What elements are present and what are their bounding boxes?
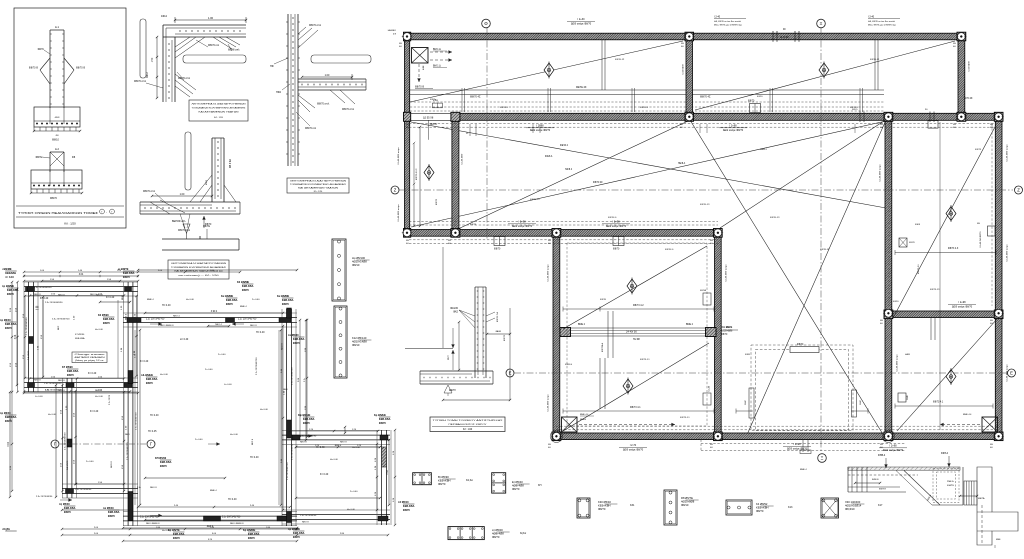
- svg-text:ΜΕΕ: ΜΕΕ: [996, 539, 1001, 541]
- svg-text:4Θ: 4Θ: [953, 127, 956, 129]
- svg-text:4Φ: 4Φ: [393, 33, 396, 36]
- svg-text:ΚΕΒ-ΚΒΑ: ΚΕΒ-ΚΒΑ: [123, 272, 135, 275]
- svg-text:4Φ/8 Β: 4Φ/8 Β: [430, 123, 438, 126]
- middle room dashed stage rectangles: [751, 345, 853, 431]
- svg-text:Κ2,Κα: Κ2,Κα: [466, 479, 473, 482]
- wall section detail: text box: [287, 178, 349, 193]
- svg-text:ΔΙΑΣΤΑΣΕΙΣ ΚΑΤΑ ΒΑΡΗ: ΔΙΑΣΤΑΣΕΙΣ ΚΑΤΑ ΒΑΡΗ: [75, 356, 106, 359]
- svg-text:ΤΟΙΧΩΜΑΤΩΝ ΚΟΛΥΜΒΗΤΙΚΗΣ ΔΕΞΑΜΕ: ΤΟΙΧΩΜΑΤΩΝ ΚΟΛΥΜΒΗΤΙΚΗΣ ΔΕΞΑΜΕΝΗΣ: [192, 107, 247, 110]
- svg-text:Ξ: Ξ: [820, 21, 823, 26]
- corner detail L2: dimension: [152, 195, 212, 197]
- svg-text:Φ8/73: Φ8/73: [435, 198, 438, 205]
- stub below H5 at x805: [802, 440, 804, 452]
- beam V7 top right: [958, 40, 965, 114]
- svg-text:Φ8/70: Φ8/70: [226, 303, 234, 306]
- svg-text:ΒΜΕ 4: ΒΜΕ 4: [726, 327, 733, 329]
- svg-text:4Θ: 4Θ: [548, 447, 551, 449]
- svg-text:Φ8/ΤΑ: Φ8/ΤΑ: [700, 289, 707, 292]
- stair detail: inner lines: [848, 474, 918, 476]
- svg-text:Σ= 0.40: Σ= 0.40: [218, 354, 226, 356]
- svg-text:ΛΕΠΤΟΜΕΡΕΙΑ Λ2 ΔΙΑΣΤΑΥΡΟΥΜΕΝΩΝ: ΛΕΠΤΟΜΕΡΕΙΑ Λ2 ΔΙΑΣΤΑΥΡΟΥΜΕΝΩΝ: [171, 262, 227, 265]
- wall section detail: dimension: [302, 76, 352, 78]
- svg-text:Σ.Δ. 25/75/45/90: Σ.Δ. 25/75/45/90: [290, 443, 293, 460]
- svg-text:Ξ: Ξ: [821, 456, 824, 461]
- svg-text:Ξ= 0.40: Ξ= 0.40: [224, 384, 232, 386]
- svg-text:40/20: 40/20: [757, 96, 763, 98]
- svg-text:Φ8/73: Φ8/73: [470, 223, 477, 226]
- foundation note box: [72, 352, 107, 363]
- foundation wall rightroom top: [282, 430, 390, 432]
- svg-text:ΗΔ/8 4: ΗΔ/8 4: [565, 168, 573, 171]
- svg-text:Χ30 140/400: Χ30 140/400: [845, 500, 861, 504]
- svg-text:Ξα Ø5/40: Ξα Ø5/40: [103, 507, 114, 510]
- svg-text:Φ8/73 4.1: Φ8/73 4.1: [630, 406, 641, 409]
- svg-text:Ι 2+98: Ι 2+98: [536, 125, 544, 128]
- slab strip detail: [162, 238, 239, 240]
- foundation wall room2 left: [62, 378, 64, 498]
- svg-text:Φ8/70: Φ8/70: [7, 293, 15, 296]
- svg-text:Σ.Δ. 25/75/45/700: Σ.Δ. 25/75/45/700: [286, 462, 289, 480]
- svg-text:ΝΕΟ 8: ΝΕΟ 8: [302, 521, 309, 523]
- foundation wall bigroom bottom: [123, 511, 297, 513]
- svg-text:4Θ: 4Θ: [399, 46, 402, 48]
- corner detail L2: corner rebar diagonals: [200, 185, 212, 202]
- retaining wall detail: leader to plan above: [442, 247, 444, 348]
- svg-text:Φ8,Φ10: Φ8,Φ10: [845, 507, 855, 511]
- svg-text:ΒΜΕ 4: ΒΜΕ 4: [240, 306, 247, 308]
- svg-text:Κρ ΘΝ/ΜΕ: Κρ ΘΝ/ΜΕ: [243, 529, 256, 532]
- svg-text:Σ.Δ. 25/100/45/90: Σ.Δ. 25/100/45/90: [45, 389, 63, 392]
- svg-text:Φ8/70: Φ8/70: [108, 515, 116, 518]
- svg-text:Φ8/70: Φ8/70: [721, 333, 728, 336]
- svg-text:Φ8/70: Φ8/70: [494, 248, 501, 251]
- svg-text:Ι 2+40 ΔΕΘ ανάρε: Ι 2+40 ΔΕΘ ανάρε: [547, 264, 550, 282]
- right room thin vertical line: [939, 122, 941, 430]
- svg-text:Φ8/10: Φ8/10: [681, 503, 689, 507]
- svg-text:Φ8/Χ: Φ8/Χ: [205, 179, 208, 185]
- svg-text:Κ4 Ø8/92: Κ4 Ø8/92: [756, 502, 768, 506]
- svg-text:ΤΕ Φ8: ΤΕ Φ8: [633, 338, 640, 341]
- svg-text:Δ.1: Δ.1: [55, 25, 59, 29]
- corner detail L1: left dimension: [156, 37, 158, 98]
- retaining wall detail: vertical wall: [474, 287, 476, 378]
- beam V6: [715, 236, 722, 433]
- svg-text:4Θ: 4Θ: [406, 127, 409, 129]
- svg-text:1.00: 1.00: [325, 74, 330, 77]
- svg-text:Σ= 0.40: Σ= 0.40: [252, 299, 260, 301]
- svg-text:Φ8/70 4.Σ: Φ8/70 4.Σ: [700, 203, 710, 206]
- svg-text:ΒΕΖ 4: ΒΕΖ 4: [125, 313, 127, 320]
- diamond node lower-left room upper: [627, 279, 637, 293]
- grid axis vertical x=821: [820, 28, 822, 453]
- stub on V8 left y230: [988, 226, 996, 236]
- svg-text:ΚΕΒ-ΚΒΑ: ΚΕΒ-ΚΒΑ: [248, 533, 260, 536]
- svg-text:Φ8/70 Θ: Φ8/70 Θ: [608, 216, 617, 219]
- svg-text:Σ.Δ. 25/100/45/90: Σ.Δ. 25/100/45/90: [25, 317, 28, 335]
- svg-text:Β) Ø5/90: Β) Ø5/90: [438, 475, 449, 479]
- svg-text:ΒΜΕ 4: ΒΜΕ 4: [210, 490, 217, 492]
- svg-text:Σ.Δ. 25/75/45/90: Σ.Δ. 25/75/45/90: [300, 514, 317, 517]
- svg-text:Σ= 0.40: Σ= 0.40: [350, 491, 358, 493]
- dashed line below bottom beam right: [701, 443, 906, 445]
- double circle at H5 left end: [550, 430, 562, 442]
- svg-text:Σ.Δ. 25/75/45/700: Σ.Δ. 25/75/45/700: [140, 515, 159, 518]
- svg-text:ΦΘΒ Δ: ΦΘΒ Δ: [878, 454, 886, 457]
- stub on V4 right side upper: [899, 238, 907, 247]
- svg-text:Φ8/Ε: Φ8/Ε: [906, 395, 909, 400]
- svg-text:Ι 2-40 ΔΕΘ: Ι 2-40 ΔΕΘ: [968, 61, 971, 72]
- svg-text:ΦΜ/ΤΕ: ΦΜ/ΤΕ: [947, 484, 955, 487]
- svg-text:Σ.Δ. 25/100/45/90: Σ.Δ. 25/100/45/90: [44, 382, 62, 385]
- svg-text:Φ8/70: Φ8/70: [293, 536, 301, 539]
- svg-text:Η= 0.40: Η= 0.40: [316, 446, 325, 449]
- right upper room dashed inset: [991, 124, 993, 306]
- svg-text:ΝΕΟ ΦΕΩΕ 8: ΝΕΟ ΦΕΩΕ 8: [160, 324, 174, 327]
- grid axis vertical x=487: [486, 28, 488, 240]
- right lower room rib: [895, 405, 993, 407]
- svg-text:ΝΕΟ 4: ΝΕΟ 4: [215, 324, 222, 326]
- svg-text:ΒΜΕ 4: ΒΜΕ 4: [147, 299, 154, 301]
- svg-text:Φ8/73 4.1: Φ8/73 4.1: [917, 264, 920, 274]
- svg-text:ΦΕ/Τθ: ΦΕ/Τθ: [449, 389, 456, 392]
- svg-text:Σ= 0.40: Σ= 0.40: [90, 410, 99, 413]
- svg-text:Η= 0.40: Η= 0.40: [186, 299, 195, 301]
- svg-text:ΗΦ2: ΗΦ2: [276, 91, 282, 94]
- svg-text:Φ8/70: Φ8/70: [909, 241, 916, 244]
- svg-text:Φ10/20: Φ10/20: [450, 307, 459, 310]
- stub between dashed rows left strip: [432, 103, 442, 108]
- svg-text:ΦΕΤΑ 4: ΦΕΤΑ 4: [560, 144, 569, 147]
- svg-text:ΚΕΒ-ΚΒΑ: ΚΕΒ-ΚΒΑ: [5, 323, 17, 326]
- svg-text:Φ8/70: Φ8/70: [403, 509, 411, 512]
- svg-text:3.04: 3.04: [15, 334, 17, 339]
- svg-text:Σ= 0.40: Σ= 0.40: [195, 439, 203, 441]
- beam V5: [553, 236, 560, 433]
- svg-text:Φ8/70: Φ8/70: [146, 382, 154, 385]
- beam H2 open segment: [410, 112, 452, 114]
- svg-text:Φ8/70: Φ8/70: [438, 482, 446, 486]
- column section X30 square: [821, 498, 839, 518]
- svg-text:ΚΕΒ-ΚΒΑ: ΚΕΒ-ΚΒΑ: [5, 416, 17, 419]
- dashed slab edge below H2: [409, 123, 1000, 125]
- svg-text:ΦΑΣ: ΦΑΣ: [453, 311, 458, 314]
- svg-text:Κ2 ΘΝ/ΜΕ: Κ2 ΘΝ/ΜΕ: [237, 281, 249, 284]
- svg-text:Η= 0.40: Η= 0.40: [330, 459, 339, 461]
- svg-text:Φ8/70 Θ: Φ8/70 Θ: [665, 248, 674, 251]
- stubs on V6 left side: [703, 293, 711, 305]
- svg-text:4Ø20+14Ø8: 4Ø20+14Ø8: [352, 340, 367, 344]
- svg-text:ΔΕΘ ανάρε Φ8/70: ΔΕΘ ανάρε Φ8/70: [571, 23, 592, 26]
- svg-text:1.00: 1.00: [208, 16, 214, 20]
- svg-text:4Θ: 4Θ: [548, 243, 551, 245]
- svg-text:ΒΜΕ 4.4: ΒΜΕ 4.4: [580, 414, 589, 416]
- foundation perimeter dimension chains: [24, 271, 240, 273]
- retaining wall detail: bottom arrow: [444, 385, 452, 393]
- svg-text:Ι 2-40: Ι 2-40: [714, 16, 721, 19]
- svg-text:ΚΕΒ+ΚΒΗ: ΚΕΒ+ΚΒΗ: [438, 479, 451, 483]
- svg-text:ΗΕ/8 Α: ΗΕ/8 Α: [678, 162, 686, 165]
- stub on V4 right side lower: [898, 393, 906, 402]
- svg-text:ΚΛ : 1/20: ΚΛ : 1/20: [314, 191, 323, 193]
- middle room side bars: [749, 388, 754, 418]
- wall section detail: upper slab bar: [311, 55, 371, 63]
- svg-text:Κ31: Κ31: [630, 504, 635, 507]
- svg-text:Φ8/70: Φ8/70: [64, 511, 72, 514]
- svg-text:Δ.2: Δ.2: [55, 147, 59, 151]
- svg-text:κι ΘΝ/ΤΕ: κι ΘΝ/ΤΕ: [118, 268, 129, 271]
- svg-text:Ι 2-40 ΔΕΘ: Ι 2-40 ΔΕΘ: [682, 64, 685, 75]
- diamond node left strip: [424, 166, 434, 180]
- svg-text:3.04: 3.04: [8, 442, 10, 447]
- svg-text:ΒΕΡΟΦ απλ: ΒΕΡΟΦ απλ: [172, 220, 186, 223]
- svg-text:Φ8/70: Φ8/70: [67, 374, 75, 377]
- svg-text:ΚΛ : 1/20: ΚΛ : 1/20: [214, 117, 224, 119]
- svg-text:Ι 2+98: Ι 2+98: [518, 221, 526, 224]
- lower-left room diagonals: [563, 246, 707, 329]
- svg-text:4Ø8+4Ø8: 4Ø8+4Ø8: [512, 484, 524, 488]
- svg-text:ΚΕΦΑΒΗ: ΚΕΦΑΒΗ: [5, 272, 16, 275]
- svg-text:ΞΔ ΘΝ/ΗΕ: ΞΔ ΘΝ/ΗΕ: [141, 374, 153, 377]
- svg-text:Σ= 0.40: Σ= 0.40: [86, 461, 94, 463]
- svg-text:Σ.Δ. 25/75/45/700: Σ.Δ. 25/75/45/700: [290, 367, 293, 385]
- svg-text:Ι 2+40 ΔΕΘ ανάρε: Ι 2+40 ΔΕΘ ανάρε: [547, 394, 550, 412]
- foundation spine wall: [123, 282, 125, 526]
- svg-text:Σ= 0.40: Σ= 0.40: [106, 296, 115, 299]
- svg-text:ΒΜΕ 4: ΒΜΕ 4: [578, 324, 586, 326]
- svg-text:Ι 2+40 ΔΕΘ ανάρε: Ι 2+40 ΔΕΘ ανάρε: [1006, 244, 1009, 262]
- svg-text:Η= 0.40: Η= 0.40: [95, 329, 104, 331]
- svg-text:Η= 0.40: Η= 0.40: [230, 434, 239, 436]
- corner detail L2: column bar: [185, 132, 191, 190]
- svg-text:ΚΕΒ-ΚΒΑ: ΚΕΒ-ΚΒΑ: [146, 378, 158, 381]
- svg-text:ΦΔ/8 Α: ΦΔ/8 Α: [545, 155, 553, 158]
- svg-text:Η= 0.45: Η= 0.45: [148, 430, 157, 433]
- svg-text:Ξ4 Ø5/10: Ξ4 Ø5/10: [398, 501, 409, 504]
- svg-text:ΔΕΘ ανάρε Φ8/70: ΔΕΘ ανάρε Φ8/70: [723, 129, 744, 132]
- svg-text:Φ8/70: Φ8/70: [293, 342, 301, 345]
- svg-text:ΝΕΟ 8: ΝΕΟ 8: [300, 441, 307, 443]
- svg-text:Ξρ ΘΝ/ΜΕ: Ξρ ΘΝ/ΜΕ: [2, 285, 14, 288]
- svg-text:3.90 4: 3.90 4: [211, 311, 218, 313]
- column section Xi three-cell wide: [448, 527, 484, 540]
- svg-text:Κ13: Κ13: [788, 506, 793, 509]
- tick pair on H2 near V4: [859, 112, 861, 123]
- foundation section axis: [60, 443, 146, 445]
- beam V1 left: [405, 33, 410, 236]
- svg-text:ΚΠ Ø5/90: ΚΠ Ø5/90: [155, 457, 167, 460]
- svg-text:Φ8/73 4.Σ: Φ8/73 4.Σ: [948, 247, 959, 250]
- svg-text:ΗΔ/ΔΕΟ: ΗΔ/ΔΕΟ: [388, 29, 397, 32]
- svg-text:Ι 2+98: Ι 2+98: [612, 221, 620, 224]
- svg-text:ΛΕΠΤΟΜΕΡΕΙΑ Λ3 ΔΙΑΣΤΑΥΡΟΥΜΕΝΩΝ: ΛΕΠΤΟΜΕΡΕΙΑ Λ3 ΔΙΑΣΤΑΥΡΟΥΜΕΝΩΝ: [290, 180, 347, 183]
- svg-text:Κ17: Κ17: [878, 504, 883, 507]
- foundation wall room1 top: [24, 281, 138, 283]
- grid axis horizontal y=190: [399, 189, 1013, 191]
- lap splice diamond D1: [40, 58, 50, 70]
- svg-text:Ι 2+40 ΔΕΘ ανάρε: Ι 2+40 ΔΕΘ ανάρε: [879, 164, 882, 182]
- svg-text:ΝΕΟ 8: ΝΕΟ 8: [34, 294, 41, 296]
- svg-text:Φ8/70 4: Φ8/70 4: [850, 106, 859, 109]
- svg-text:Ε: Ε: [1010, 371, 1013, 376]
- svg-text:ΚΑΙ ΔΕΞΑΜΕΝΩΝ ΥΔΑΤΩΝ: ΚΑΙ ΔΕΞΑΜΕΝΩΝ ΥΔΑΤΩΝ: [298, 186, 339, 189]
- svg-text:Φ8/70 4Σ: Φ8/70 4Σ: [470, 96, 481, 99]
- stub below H4 right: [613, 237, 624, 246]
- svg-text:Ξρ Ø3/40: Ξρ Ø3/40: [0, 412, 11, 415]
- svg-text:ΒΜΕ 4: ΒΜΕ 4: [686, 324, 694, 326]
- svg-text:ΚΕΒ-ΚΒΑ: ΚΕΒ-ΚΒΑ: [282, 299, 294, 302]
- stair detail: big right rect: [977, 467, 1018, 545]
- svg-text:4Θ: 4Θ: [880, 447, 883, 449]
- column section K4 wide: [726, 500, 752, 515]
- svg-text:Σ.Δ. 25/75/45/700: Σ.Δ. 25/75/45/700: [146, 318, 165, 321]
- svg-text:Φ8/70 Θ: Φ8/70 Θ: [76, 67, 85, 70]
- corner detail L1: vertical wall: [162, 25, 164, 102]
- right upper room diagonal: [893, 125, 996, 318]
- svg-text:Σ.Δ. 25/75/45/90: Σ.Δ. 25/75/45/90: [75, 488, 92, 491]
- rib tick pairs upper band: [461, 88, 463, 112]
- wall section detail: corner rebars: [298, 95, 315, 108]
- svg-text:Ξ= 0.40: Ξ= 0.40: [35, 396, 43, 398]
- detail box title strip: [16, 205, 124, 207]
- svg-text:Ι 2+98: Ι 2+98: [958, 301, 966, 304]
- svg-text:Φ8/10: Φ8/10: [352, 263, 360, 267]
- svg-text:Κ7 Ø5/90: Κ7 Ø5/90: [75, 334, 85, 336]
- beam H5 bottom: [553, 433, 1002, 440]
- svg-text:Φ8/70 4Σ: Φ8/70 4Σ: [615, 58, 625, 61]
- svg-text:ΚΕΒ-ΚΒΑ: ΚΕΒ-ΚΒΑ: [242, 285, 254, 288]
- foundation dimension ticks room1 inner: [23, 275, 25, 277]
- long diagonals middle hall: [411, 121, 886, 227]
- corner detail L1: corner rebar diagonals: [175, 37, 196, 52]
- svg-text:ΔΕΘ ανάρε Φ8/70: ΔΕΘ ανάρε Φ8/70: [883, 449, 904, 452]
- foundation arrow marks: [150, 323, 162, 325]
- left strip dimension arrow: [419, 127, 421, 226]
- svg-text:Ξ= 0.40: Ξ= 0.40: [180, 338, 189, 341]
- svg-text:Ξ= 3.10: Ξ= 3.10: [5, 276, 14, 279]
- svg-text:Σ.Δ. 25/75/45/700: Σ.Δ. 25/75/45/700: [52, 318, 70, 321]
- svg-text:Ι 2+40 ΔΕΘ ανάρε: Ι 2+40 ΔΕΘ ανάρε: [896, 354, 899, 372]
- svg-text:Φ8/70 Θ: Φ8/70 Θ: [29, 67, 38, 70]
- svg-text:Φ8/7α: Φ8/7α: [38, 48, 45, 51]
- diamond node upper band right: [819, 63, 829, 77]
- svg-text:Ξη Ø5/40: Ξη Ø5/40: [59, 503, 70, 506]
- svg-text:Η= 0.40: Η= 0.40: [150, 414, 159, 417]
- svg-text:Φ8/73 4.1.Σ: Φ8/73 4.1.Σ: [415, 168, 418, 180]
- svg-text:Ι 2-40: Ι 2-40: [868, 16, 875, 19]
- svg-text:Η= 0.40: Η= 0.40: [95, 396, 104, 398]
- foundation wall rightroom right: [376, 430, 378, 525]
- svg-text:ΒΜΕ 4: ΒΜΕ 4: [800, 469, 807, 471]
- svg-text:ΚΠ: ΚΠ: [538, 484, 542, 487]
- svg-text:Ι 2+40 ΔΕΘ: Ι 2+40 ΔΕΘ: [461, 153, 464, 165]
- svg-text:Η= 0.40: Η= 0.40: [160, 374, 169, 376]
- svg-text:ΒΦΕ Ε: ΒΦΕ Ε: [872, 478, 879, 481]
- svg-text:ΘΔ, Φ8/70 αν άνε 8ον πουλά: ΘΔ, Φ8/70 αν άνε 8ον πουλά: [714, 20, 742, 23]
- svg-text:4Φ12: 4Φ12: [161, 15, 168, 18]
- svg-text:583 5: 583 5: [852, 109, 858, 111]
- svg-text:ΝΕΟ 8: ΝΕΟ 8: [96, 295, 103, 297]
- svg-text:Σ= 0.40: Σ= 0.40: [140, 360, 149, 363]
- svg-text:Φ8/10: Φ8/10: [52, 139, 59, 142]
- svg-text:ΔΕΘ ανάρε Φ8/70: ΔΕΘ ανάρε Φ8/70: [952, 306, 973, 309]
- svg-text:ΚΕΒ-ΚΒΑ: ΚΕΒ-ΚΒΑ: [173, 533, 185, 536]
- svg-text:Ι 2+40 ΘΔ Φ8/70: Ι 2+40 ΘΔ Φ8/70: [979, 231, 982, 248]
- svg-text:κατ επέκταση) — ΚΛ : 1/50: κατ επέκταση) — ΚΛ : 1/50: [179, 274, 220, 277]
- svg-text:ΒΜΕ 4.4: ΒΜΕ 4.4: [963, 414, 972, 416]
- svg-text:Φ8/70: Φ8/70: [173, 537, 181, 540]
- svg-text:Φ8/70 4Σ: Φ8/70 4Σ: [870, 58, 880, 61]
- svg-text:Ι 2-70: Ι 2-70: [630, 444, 637, 447]
- stair detail: top slab band: [848, 467, 960, 470]
- foundation columns: [26, 287, 33, 292]
- svg-text:Σ= 0.40: Σ= 0.40: [88, 372, 97, 375]
- svg-text:ΙΔ 40 90: ΙΔ 40 90: [780, 36, 789, 39]
- svg-text:ΚΕΒ-ΚΒΑ: ΚΕΒ-ΚΒΑ: [64, 507, 76, 510]
- retaining wall detail: bottom dimension: [443, 399, 510, 401]
- svg-text:Φ8/70 απλ: Φ8/70 απλ: [143, 190, 156, 193]
- junction blocks: [404, 32, 411, 41]
- svg-text:Μ8 4 ΦΑ: Μ8 4 ΦΑ: [229, 158, 232, 168]
- svg-text:ΔΕΘ ανάρε Φ8/70: ΔΕΘ ανάρε Φ8/70: [606, 225, 627, 228]
- svg-text:Φ8/70: Φ8/70: [50, 197, 57, 200]
- double circle at H5 V4 junction: [882, 430, 894, 442]
- svg-text:4Θ: 4Θ: [953, 46, 956, 48]
- dashed slab edge below H4: [409, 239, 718, 241]
- svg-text:ΚΕΒ-ΚΒΑ: ΚΕΒ-ΚΒΑ: [293, 532, 305, 535]
- svg-text:40/20: 40/20: [893, 301, 899, 303]
- svg-text:Φ8/70: Φ8/70: [103, 322, 111, 325]
- svg-text:Φ8/Ζ: Φ8/Ζ: [859, 400, 862, 405]
- arrow below X column: [418, 64, 420, 82]
- svg-text:ι ΚηΡα: ι ΚηΡα: [2, 528, 10, 531]
- svg-text:ΝΕΟ 8: ΝΕΟ 8: [150, 487, 157, 489]
- svg-text:Φ8/70: Φ8/70: [512, 487, 520, 491]
- svg-text:Φ8/73 4.1: Φ8/73 4.1: [680, 416, 690, 419]
- svg-text:Ι 2+40: Ι 2+40: [709, 385, 711, 392]
- svg-text:Φ8/70 απλ: Φ8/70 απλ: [178, 77, 191, 80]
- svg-text:Φ8/70 απλ.: Φ8/70 απλ.: [317, 103, 330, 106]
- svg-text:Φ8/70: Φ8/70: [756, 509, 764, 513]
- svg-text:Κα ΘΝ/ΜΕ: Κα ΘΝ/ΜΕ: [277, 295, 290, 298]
- svg-text:ΝΕΟ 8: ΝΕΟ 8: [58, 380, 65, 382]
- retaining wall detail: title box: [430, 417, 505, 432]
- beam H2: [452, 113, 1002, 120]
- svg-text:4Θ: 4Θ: [448, 243, 451, 245]
- foundation wall room1 bottom: [24, 377, 138, 379]
- corner detail L1: top dimension: [175, 19, 246, 21]
- svg-text:Ι 2+40 ΔΕΘ ανάρε: Ι 2+40 ΔΕΘ ανάρε: [725, 264, 728, 282]
- grid axis bubbles: [482, 19, 491, 28]
- svg-text:Η= 0.40: Η= 0.40: [347, 509, 356, 511]
- foundation wall bigroom right: [281, 309, 283, 526]
- retaining wall detail: inner corner dims: [405, 348, 453, 350]
- svg-text:ΚΕΒ-ΚΒΑ: ΚΕΒ-ΚΒΑ: [7, 289, 19, 292]
- svg-text:Φ8/70: Φ8/70: [748, 100, 755, 103]
- column section K12 upper: [332, 239, 346, 301]
- lower-left room rib line lower: [563, 410, 714, 412]
- footing pad D1: [34, 107, 80, 127]
- svg-text:Ηρ Ø5/100: Ηρ Ø5/100: [352, 256, 366, 260]
- svg-text:Φ8/73 4.Σ: Φ8/73 4.Σ: [930, 288, 940, 291]
- right lower room diagonal: [897, 319, 997, 431]
- svg-text:Φ8/8 Θ: Φ8/8 Θ: [565, 363, 572, 366]
- svg-text:Φ8/70: Φ8/70: [598, 507, 606, 511]
- svg-text:Φ8/70 4Σ: Φ8/70 4Σ: [700, 96, 711, 99]
- svg-text:4Θ: 4Θ: [990, 323, 993, 325]
- grid axis horizontal y=373: [514, 372, 1007, 374]
- svg-text:ΚΕΒ-ΚΒΑ: ΚΕΒ-ΚΒΑ: [108, 511, 120, 514]
- svg-text:Η= 0.40: Η= 0.40: [256, 331, 265, 334]
